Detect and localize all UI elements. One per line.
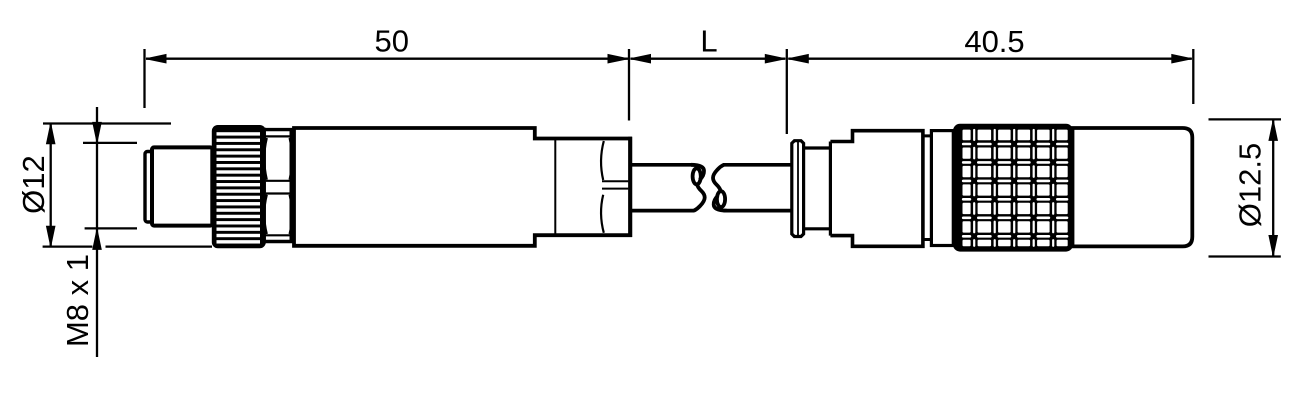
dimension Ø12 extension line top bbox=[43, 122, 171, 124]
dimension line Ø12 bbox=[50, 124, 52, 247]
right knurled grip bbox=[953, 124, 1073, 252]
dimension 50 extension line left bbox=[143, 49, 145, 108]
svg-text:L: L bbox=[700, 24, 717, 59]
rear end face bbox=[628, 137, 632, 237]
dimension Ø12.5 extension line bottom bbox=[1209, 255, 1281, 257]
svg-text:40.5: 40.5 bbox=[964, 24, 1024, 59]
left knurled coupling nut bbox=[212, 125, 266, 248]
svg-text:Ø12: Ø12 bbox=[16, 155, 51, 214]
dimension line L bbox=[631, 58, 786, 60]
dimension M8 extension line bottom bbox=[85, 227, 137, 229]
dimension line M8 (through, arrows outside) bbox=[96, 107, 98, 357]
M8 thread end cap bbox=[145, 152, 152, 223]
right connector strain flange bbox=[792, 141, 804, 237]
cable left piece bottom bbox=[632, 209, 695, 213]
rear hex mid lines bbox=[602, 180, 628, 182]
dimension Ø12.5 extension line top bbox=[1209, 118, 1282, 120]
svg-text:50: 50 bbox=[374, 24, 408, 59]
ring before knurl bbox=[931, 131, 953, 246]
dimension L extension line right / 40.5 left bbox=[786, 49, 788, 134]
dimension 40.5 extension line right bbox=[1192, 49, 1194, 104]
dimension line 50 bbox=[146, 58, 628, 60]
dimension line Ø12.5 bbox=[1272, 120, 1274, 255]
svg-text:Ø12.5: Ø12.5 bbox=[1233, 143, 1268, 227]
dimension Ø12 extension line bottom bbox=[43, 245, 212, 247]
flange inner line bbox=[797, 141, 799, 236]
dimension 50 extension line right / L left bbox=[628, 49, 630, 121]
rear end cap bbox=[1073, 128, 1193, 246]
M8 thread barrel bbox=[152, 147, 212, 225]
cable break left glyph bbox=[691, 165, 705, 211]
cable break right glyph bbox=[713, 165, 727, 211]
left connector body with rear step bbox=[294, 128, 630, 246]
right connector stepped block bbox=[830, 131, 923, 247]
cable left piece top bbox=[632, 163, 694, 167]
cable right piece top bbox=[723, 163, 791, 167]
rear section inner line bbox=[554, 140, 556, 234]
neck bbox=[923, 136, 932, 240]
right connector barrel section bbox=[804, 148, 831, 229]
svg-text:M8 x 1: M8 x 1 bbox=[60, 254, 95, 347]
dimension line 40.5 bbox=[788, 58, 1192, 60]
cable right piece bottom bbox=[724, 209, 791, 213]
rear hex arcs bbox=[601, 141, 604, 233]
dimension M8 extension line top bbox=[83, 142, 137, 144]
left hex flats section bbox=[262, 128, 293, 243]
